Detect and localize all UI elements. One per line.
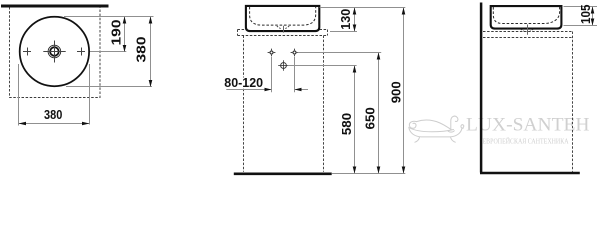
watermark bathtub icon	[409, 116, 464, 142]
basin circle	[20, 17, 89, 86]
extension 105 top	[564, 6, 598, 8]
drain outer circle	[48, 45, 61, 58]
dimension 130	[354, 8, 356, 32]
extension line bottom of circle (y86.6)	[66, 86, 152, 88]
drain ring	[50, 47, 59, 56]
floor extension	[332, 173, 406, 175]
dimension 105	[592, 7, 594, 26]
drain tick	[283, 26, 285, 33]
drain slant marks	[277, 26, 289, 28]
svg-text:380: 380	[44, 107, 62, 122]
basin front outline	[246, 6, 319, 31]
wall line right view	[480, 3, 483, 173]
80-120 right arrow with tail	[295, 89, 309, 91]
extension line top (y16)	[64, 16, 154, 18]
floor line middle	[234, 172, 332, 175]
centerline to 190 dim	[70, 51, 127, 53]
cabinet dashed right side	[572, 32, 574, 172]
dimension 650	[378, 53, 380, 174]
svg-text:105: 105	[578, 4, 593, 24]
drain slant marks right	[521, 29, 533, 31]
plus mark left	[23, 48, 31, 56]
inner bowl dashed	[250, 7, 316, 25]
svg-text:ЕВРОПЕЙСКАЯ САНТЕХНИКА: ЕВРОПЕЙСКАЯ САНТЕХНИКА	[483, 136, 569, 145]
plus mark right	[77, 48, 85, 56]
dimension 380 bottom	[19, 123, 90, 125]
center drain symbol	[278, 60, 289, 71]
dimension 380 right	[150, 17, 152, 88]
basin side outline	[491, 6, 562, 29]
faucet hole marker 2	[291, 49, 299, 57]
svg-text:650: 650	[363, 107, 378, 129]
80-120 text background	[223, 78, 266, 89]
counter band dashed	[238, 30, 328, 36]
faucet hole marker 1	[268, 49, 276, 57]
drain tick right	[527, 25, 529, 35]
drain crosshair	[43, 41, 65, 63]
inner bowl dashed right	[493, 7, 559, 24]
cabinet dashed sides	[243, 36, 245, 172]
svg-text:130: 130	[338, 9, 353, 30]
dashed square (counter outline)	[10, 7, 101, 98]
extension verticals for bottom 380	[18, 64, 20, 126]
wall line	[1, 5, 109, 8]
floor line right view	[480, 172, 580, 175]
dimension 900	[403, 8, 405, 174]
svg-text:380: 380	[133, 37, 148, 63]
counter band dashed right	[483, 32, 572, 38]
extension to 650	[298, 52, 382, 54]
extension top (basin top to 900)	[320, 7, 406, 9]
80-120 leader line	[226, 89, 271, 91]
extension verticals for 80-120	[271, 57, 273, 92]
extension to 580	[288, 65, 357, 67]
extension 105 bottom	[564, 25, 598, 27]
svg-text:580: 580	[339, 113, 354, 135]
svg-text:900: 900	[389, 81, 404, 103]
svg-text:80-120: 80-120	[224, 76, 263, 90]
svg-text:LUX-SANTEH: LUX-SANTEH	[466, 115, 590, 136]
svg-text:190: 190	[109, 20, 124, 46]
dimension 580	[354, 66, 356, 174]
dimension 190	[124, 17, 126, 53]
extension 130 bottom	[330, 31, 357, 33]
